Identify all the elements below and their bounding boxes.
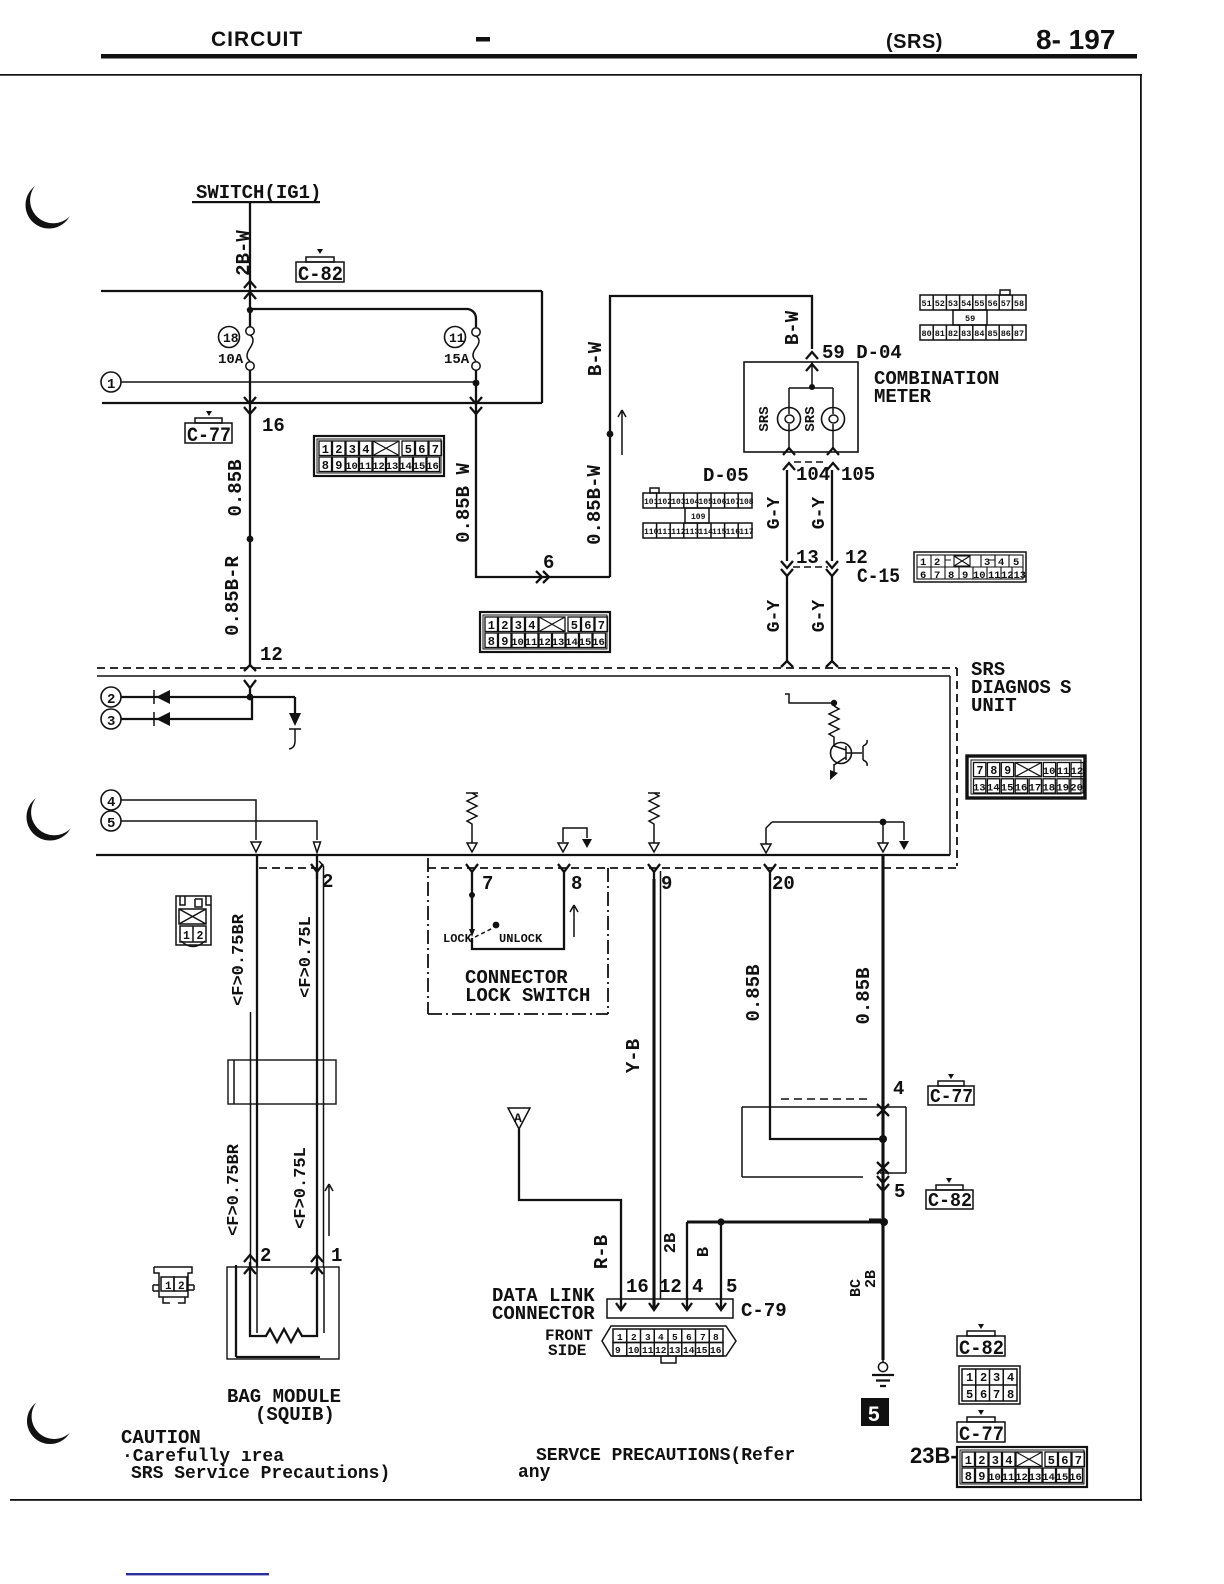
svg-text:2: 2 <box>197 930 204 943</box>
DLC box <box>607 1299 733 1318</box>
svg-text:SRS: SRS <box>757 406 773 431</box>
svg-text:4: 4 <box>893 1078 904 1100</box>
circled 5 <box>101 811 121 831</box>
svg-text:0.85B: 0.85B <box>853 967 875 1024</box>
svg-text:A: A <box>514 1111 522 1126</box>
svg-text:108: 108 <box>739 498 754 507</box>
connector table D-05 <box>643 488 752 538</box>
svg-text:S: S <box>1060 677 1071 699</box>
fork pin8 <box>558 864 570 879</box>
fuse 18 lower lead <box>249 370 251 403</box>
svg-text:84: 84 <box>974 329 984 339</box>
header thick rule <box>101 54 1137 59</box>
svg-text:7: 7 <box>934 570 940 582</box>
svg-text:C-82: C-82 <box>298 264 343 287</box>
lamp leads down <box>789 430 833 448</box>
dashed outer box bottom <box>259 867 957 869</box>
up arrow beside right wire <box>325 1184 333 1236</box>
svg-text:G-Y: G-Y <box>765 497 785 530</box>
dashed joint <box>793 566 828 568</box>
svg-text:52: 52 <box>935 299 945 309</box>
black 5 box <box>861 1398 889 1426</box>
up arrow <box>570 905 578 937</box>
svg-text:106: 106 <box>712 498 727 507</box>
svg-text:81: 81 <box>935 329 945 339</box>
svg-text:4: 4 <box>998 557 1004 569</box>
fork pin9 <box>648 864 660 879</box>
clock spring box <box>228 1060 336 1104</box>
junction dot <box>879 1135 887 1143</box>
svg-text:SRS: SRS <box>803 406 819 431</box>
svg-text:B-W: B-W <box>782 310 804 345</box>
svg-text:104: 104 <box>796 464 830 486</box>
tick <box>869 1218 881 1221</box>
svg-text:16: 16 <box>262 415 285 437</box>
svg-text:5: 5 <box>1013 557 1019 569</box>
entry arrow pin12 <box>244 663 256 671</box>
svg-text:2: 2 <box>631 1332 637 1343</box>
svg-text:17: 17 <box>1029 782 1042 794</box>
svg-text:7: 7 <box>482 873 493 895</box>
crossing chevrons wire x250 at rail C <box>244 397 256 414</box>
svg-text:111: 111 <box>658 528 673 537</box>
binding crescent 2 <box>27 789 78 840</box>
svg-text:7: 7 <box>993 1388 1000 1402</box>
open arrow squib2 <box>314 842 321 853</box>
fork pin squib right <box>319 861 324 866</box>
svg-text:8: 8 <box>713 1332 719 1343</box>
svg-text:BC: BC <box>848 1279 865 1297</box>
svg-text:SERVCE PRECAUTIONS(Refer: SERVCE PRECAUTIONS(Refer <box>536 1446 795 1466</box>
wire B <box>720 1222 722 1308</box>
X + arrows at C-82 <box>877 1162 889 1174</box>
svg-text:20: 20 <box>772 873 795 895</box>
diode on line 3 <box>156 712 170 726</box>
DLC front view <box>602 1326 736 1363</box>
svg-text:C-77: C-77 <box>959 1424 1004 1447</box>
wires down to bag module <box>257 856 317 1267</box>
svg-text:2: 2 <box>260 1245 271 1267</box>
svg-text:5: 5 <box>894 1181 905 1203</box>
svg-text:5: 5 <box>726 1276 737 1298</box>
svg-text:8- 197: 8- 197 <box>1036 24 1115 55</box>
svg-text:2B: 2B <box>863 1270 880 1288</box>
svg-text:C-82: C-82 <box>959 1338 1004 1361</box>
svg-text:11: 11 <box>1057 766 1070 778</box>
X arrows at 13/12 <box>781 561 838 576</box>
arrows into DLC <box>616 1303 726 1310</box>
svg-text:1: 1 <box>617 1332 623 1343</box>
svg-text:53: 53 <box>948 299 958 309</box>
svg-text:C-82: C-82 <box>928 1190 972 1212</box>
X at C-77 <box>877 1104 889 1116</box>
svg-text:CIRCUIT: CIRCUIT <box>211 28 303 51</box>
2B/B bus to main wire <box>687 1220 883 1223</box>
blue underline bottom <box>126 1573 269 1575</box>
svg-text:54: 54 <box>961 299 971 309</box>
svg-text:SWITCH(IG1): SWITCH(IG1) <box>196 182 321 204</box>
svg-text:G-Y: G-Y <box>810 600 830 633</box>
svg-text:6: 6 <box>980 1388 987 1402</box>
svg-text:8: 8 <box>571 873 582 895</box>
solid inner box top <box>97 675 950 677</box>
main wire 0.85B <box>881 855 884 1360</box>
dashed outer box right <box>956 668 958 866</box>
fuse block rail B <box>250 309 476 327</box>
svg-text:86: 86 <box>1001 329 1011 339</box>
svg-text:12: 12 <box>260 644 283 666</box>
fuse block rail C <box>102 402 542 404</box>
svg-text:13: 13 <box>973 782 986 794</box>
svg-text:C-77: C-77 <box>930 1086 973 1108</box>
svg-text:6: 6 <box>543 552 554 574</box>
wire 2B-W from switch <box>249 203 251 327</box>
svg-text:5: 5 <box>672 1332 678 1343</box>
svg-text:3: 3 <box>984 557 990 569</box>
diode branch down <box>294 697 296 713</box>
svg-text:117: 117 <box>739 528 754 537</box>
svg-text:23B-: 23B- <box>910 1443 958 1468</box>
svg-text:19: 19 <box>1056 782 1069 794</box>
svg-text:CAUTION: CAUTION <box>121 1427 201 1449</box>
G-Y wires lower <box>787 576 832 662</box>
svg-text:(SQUIB): (SQUIB) <box>255 1404 335 1426</box>
fuse block right bracket <box>541 291 543 403</box>
svg-text:14: 14 <box>987 782 1000 794</box>
right page border <box>1140 74 1142 1501</box>
junction dot <box>247 536 254 543</box>
resistor pin7 <box>466 793 478 843</box>
entry fork pin 12 inside <box>244 680 256 697</box>
svg-text:6: 6 <box>920 570 926 582</box>
chain box left <box>427 858 429 1014</box>
meter internal wires <box>789 362 833 407</box>
up arrow beside B-W <box>618 410 626 455</box>
circled 4 <box>101 790 121 810</box>
entry X + arrow into D-04 <box>806 352 818 371</box>
loop thin box <box>742 1107 906 1177</box>
junction dot rail B <box>247 307 253 313</box>
DLC front view cells <box>613 1329 723 1356</box>
svg-text:13: 13 <box>669 1345 681 1356</box>
svg-text:G-Y: G-Y <box>810 497 830 530</box>
svg-text:11: 11 <box>449 331 465 346</box>
svg-text:B: B <box>695 1247 714 1257</box>
svg-text:11: 11 <box>642 1345 654 1356</box>
svg-text:9: 9 <box>661 873 672 895</box>
chain box bottom <box>428 1013 608 1015</box>
connector table D-04 <box>920 290 1026 340</box>
svg-text:57: 57 <box>1001 299 1011 309</box>
svg-text:C-77: C-77 <box>187 425 231 448</box>
line from 3 <box>121 697 252 719</box>
svg-text:112: 112 <box>671 528 686 537</box>
internal bus lower-right <box>766 822 904 844</box>
wire 2B <box>686 1222 688 1308</box>
resistor (vertical) <box>829 706 839 740</box>
diode on line 2 <box>156 690 170 704</box>
svg-text:8: 8 <box>990 765 997 778</box>
svg-text:Y-B: Y-B <box>623 1039 645 1073</box>
connector C-82 mid symbol <box>926 1178 973 1209</box>
transistor Q <box>831 743 852 764</box>
header thin rule <box>0 74 1142 76</box>
svg-text:UNLOCK: UNLOCK <box>499 932 543 946</box>
line from 4 <box>121 800 256 840</box>
svg-text:16: 16 <box>710 1345 722 1356</box>
svg-text:16: 16 <box>1015 782 1028 794</box>
dashed joint below meter <box>794 461 827 463</box>
svg-text:LOCK: LOCK <box>443 932 473 946</box>
crossing chevrons on 2B-W wire <box>244 281 256 299</box>
open arrow 20 <box>761 844 771 853</box>
SRS lamp left <box>778 408 801 431</box>
switch wire pin7 <box>471 879 473 930</box>
svg-text:85: 85 <box>988 329 998 339</box>
svg-text:any: any <box>518 1463 551 1483</box>
svg-text:SRS Service Precautions): SRS Service Precautions) <box>131 1464 390 1484</box>
solid arrow <box>899 841 909 850</box>
junction dot B-W <box>607 431 614 438</box>
svg-text:2B: 2B <box>662 1233 681 1253</box>
svg-text:<F>0.75BR: <F>0.75BR <box>225 1143 244 1236</box>
svg-text:5: 5 <box>107 816 115 832</box>
wire from A <box>519 1129 621 1308</box>
crossing chevrons wire x476 at rail C <box>470 397 482 414</box>
circled 1 <box>101 372 121 392</box>
squib resistor <box>250 1262 317 1342</box>
svg-text:C-15: C-15 <box>857 566 900 589</box>
svg-text:115: 115 <box>712 528 727 537</box>
combination meter box <box>744 362 858 452</box>
X arrows into bag module <box>244 1255 256 1274</box>
svg-text:12: 12 <box>655 1345 667 1356</box>
bracket pin8 <box>563 828 587 842</box>
dashed stub at C-77 <box>781 1098 872 1100</box>
connector table C-82 mid <box>480 612 610 652</box>
open arrow onto bus <box>878 843 888 852</box>
svg-text:83: 83 <box>961 329 971 339</box>
svg-text:<F>0.75L: <F>0.75L <box>292 1147 311 1229</box>
fuse 11 <box>472 328 480 370</box>
svg-text:8: 8 <box>948 570 954 582</box>
svg-text:87: 87 <box>1014 329 1024 339</box>
svg-text:10A: 10A <box>218 352 244 368</box>
svg-text:10: 10 <box>1043 766 1056 778</box>
svg-text:10: 10 <box>628 1345 640 1356</box>
svg-text:20: 20 <box>1070 782 1083 794</box>
svg-text:1: 1 <box>165 1281 172 1293</box>
chevrons right on wire 6 <box>536 571 549 583</box>
svg-text:58: 58 <box>1014 299 1024 309</box>
bag module box <box>227 1267 339 1359</box>
svg-text:0.85B-R: 0.85B-R <box>222 556 244 636</box>
resistor + transistor stub <box>785 694 834 703</box>
circled 3 <box>101 709 121 729</box>
small connector icon lower <box>153 1267 194 1303</box>
solid inner box right <box>949 676 951 855</box>
svg-text:2B-W: 2B-W <box>233 230 255 276</box>
binding crescent 3 <box>27 1394 77 1444</box>
svg-text:3: 3 <box>993 1371 1000 1385</box>
svg-text:<F>0.75BR: <F>0.75BR <box>230 913 249 1006</box>
SRS unit connector table <box>0 0 1 1</box>
switch bottom + pin8 riser <box>472 879 564 949</box>
svg-text:5: 5 <box>966 1388 973 1402</box>
svg-text:C-79: C-79 <box>741 1300 787 1322</box>
C-82 symbol <box>957 1324 1005 1356</box>
svg-text:0.85B W: 0.85B W <box>453 463 475 543</box>
svg-text:15: 15 <box>1001 782 1014 794</box>
svg-text:UNIT: UNIT <box>971 695 1017 717</box>
G-Y wires down <box>787 470 832 561</box>
circled 2 <box>101 687 121 707</box>
svg-text:4: 4 <box>107 795 115 811</box>
svg-text:4: 4 <box>692 1276 703 1298</box>
svg-text:SIDE: SIDE <box>548 1342 586 1360</box>
wire 0.85B down <box>249 403 251 663</box>
svg-text:18: 18 <box>1043 782 1056 794</box>
svg-text:13: 13 <box>1014 570 1027 582</box>
svg-text:9: 9 <box>615 1345 621 1356</box>
connector table C-77 top <box>314 436 444 476</box>
svg-text:7: 7 <box>977 765 984 778</box>
svg-text:LOCK SWITCH: LOCK SWITCH <box>465 985 590 1007</box>
junction dot <box>247 694 254 701</box>
svg-text:59 D-04: 59 D-04 <box>822 342 902 364</box>
fuse 18 <box>246 327 254 370</box>
svg-text:1: 1 <box>966 1371 973 1385</box>
chain box right <box>607 868 609 1014</box>
svg-text:5: 5 <box>868 1403 880 1426</box>
fuse 11 lower lead <box>475 370 477 404</box>
svg-text:107: 107 <box>726 498 741 507</box>
svg-text:<F>0.75L: <F>0.75L <box>297 916 316 998</box>
fork pin2 <box>311 864 323 879</box>
svg-text:104: 104 <box>685 498 700 507</box>
svg-text:114: 114 <box>698 528 713 537</box>
svg-text:D-05: D-05 <box>703 465 749 487</box>
svg-text:1: 1 <box>331 1245 342 1267</box>
small connector icon upper <box>176 896 211 947</box>
svg-text:56: 56 <box>988 299 998 309</box>
wire from circle 1 to fuse 11 <box>121 381 476 383</box>
svg-text:51: 51 <box>922 299 932 309</box>
svg-text:8: 8 <box>1007 1388 1014 1402</box>
svg-text:1: 1 <box>183 930 190 943</box>
open arrow squib1 <box>251 842 261 852</box>
connector table C-15 <box>914 552 1026 582</box>
svg-text:3: 3 <box>107 714 115 730</box>
line from 2 <box>121 696 295 698</box>
svg-text:2: 2 <box>934 557 940 569</box>
hook <box>289 741 295 749</box>
svg-text:16: 16 <box>626 1276 649 1298</box>
svg-text:3: 3 <box>645 1332 651 1343</box>
wire 0.85B W from fuse 11 <box>476 404 610 577</box>
SRS lamp right <box>822 408 845 431</box>
connector table C-77 bottom (23B) <box>957 1447 1087 1487</box>
svg-text:116: 116 <box>726 528 741 537</box>
fork pin7 <box>466 864 478 879</box>
wire 0.85B pin20 down <box>770 879 883 1139</box>
svg-text:R-B: R-B <box>591 1235 613 1269</box>
solid inner box bottom (bus) <box>96 854 950 856</box>
svg-text:B-W: B-W <box>585 341 607 376</box>
svg-text:12: 12 <box>1071 766 1084 778</box>
dashed outer box top <box>97 667 957 669</box>
svg-text:103: 103 <box>671 498 686 507</box>
svg-text:18: 18 <box>223 331 239 346</box>
Y-B wire <box>652 879 655 1308</box>
svg-text:59: 59 <box>965 314 975 324</box>
svg-text:15: 15 <box>696 1345 708 1356</box>
svg-text:9: 9 <box>962 570 968 582</box>
ground <box>882 1360 884 1362</box>
svg-text:15A: 15A <box>444 352 470 368</box>
line from 5 <box>121 821 317 840</box>
svg-text:105: 105 <box>841 464 875 486</box>
C-82 pin table <box>959 1366 1020 1404</box>
antenna A <box>508 1108 530 1129</box>
svg-text:13: 13 <box>796 547 819 569</box>
bottom page border <box>10 1499 1142 1501</box>
wire B-W vertical <box>610 296 812 577</box>
header dash <box>476 37 490 42</box>
svg-text:0.85B-W: 0.85B-W <box>584 465 606 545</box>
svg-text:9: 9 <box>1004 765 1011 778</box>
svg-text:CONNECTOR: CONNECTOR <box>492 1303 595 1325</box>
svg-text:110: 110 <box>644 528 659 537</box>
svg-text:G-Y: G-Y <box>765 600 785 633</box>
svg-text:105: 105 <box>698 498 713 507</box>
svg-text:4: 4 <box>658 1332 664 1343</box>
svg-text:12: 12 <box>1001 570 1014 582</box>
binding crescent 1 <box>26 177 77 228</box>
svg-text:101: 101 <box>644 498 659 507</box>
svg-text:(SRS): (SRS) <box>886 31 943 53</box>
svg-text:6: 6 <box>686 1332 692 1343</box>
svg-text:80: 80 <box>922 329 932 339</box>
svg-text:102: 102 <box>658 498 673 507</box>
connector C-77 symbol top-left <box>185 411 232 443</box>
svg-text:10: 10 <box>973 570 986 582</box>
svg-text:14: 14 <box>683 1345 695 1356</box>
svg-text:12: 12 <box>659 1276 682 1298</box>
svg-text:7: 7 <box>700 1332 706 1343</box>
svg-text:109: 109 <box>691 513 706 522</box>
svg-text:METER: METER <box>874 386 932 408</box>
svg-text:0.85B: 0.85B <box>225 459 247 516</box>
svg-text:1: 1 <box>920 557 926 569</box>
svg-text:2: 2 <box>178 1281 185 1293</box>
svg-text:113: 113 <box>685 528 700 537</box>
svg-text:0.85B: 0.85B <box>743 964 765 1021</box>
svg-text:2: 2 <box>107 692 115 708</box>
connector C-77 mid symbol <box>928 1074 974 1105</box>
svg-text:4: 4 <box>1007 1371 1014 1385</box>
svg-text:2: 2 <box>980 1371 987 1385</box>
C-77 symbol <box>957 1410 1005 1442</box>
svg-text:82: 82 <box>948 329 958 339</box>
fuse block rail A <box>101 290 542 292</box>
entry tips into SRS box <box>781 661 838 667</box>
svg-text:11: 11 <box>988 570 1001 582</box>
svg-text:1: 1 <box>107 377 115 393</box>
resistor pin9 <box>648 793 660 843</box>
connector table C-70 (SRS unit) <box>967 756 1085 798</box>
lamp output arrows <box>783 448 795 470</box>
